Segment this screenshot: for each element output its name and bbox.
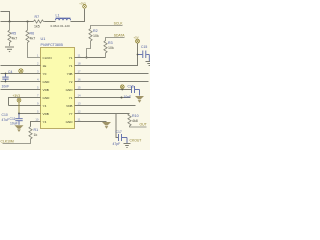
svg-text:GND: GND [66, 88, 74, 92]
node junction (18.5,113) [18, 113, 20, 115]
svg-text:Y0B: Y0B [67, 72, 73, 76]
wire IC pin8 right [75, 113, 130, 115]
svg-text:C4: C4 [8, 70, 12, 74]
svg-text:18: 18 [78, 61, 82, 65]
svg-text:14: 14 [78, 93, 82, 97]
svg-text:47uF: 47uF [2, 118, 10, 122]
ground arrow below C16 [135, 96, 144, 103]
resistor R7 [34, 20, 45, 23]
inductor L1 [55, 18, 70, 20]
wire IC pin4 left [1, 81, 41, 83]
svg-text:1E: 1E [43, 64, 47, 68]
svg-text:17: 17 [78, 69, 82, 73]
svg-text:16: 16 [78, 77, 82, 81]
node junction (121,89) [121, 89, 123, 91]
svg-text:VDB: VDB [43, 88, 49, 92]
node junction (5,73) [5, 73, 7, 75]
svg-text:PI49FCT3805: PI49FCT3805 [41, 43, 63, 47]
node junction (5,81) [5, 81, 7, 83]
ground below R5 [5, 47, 14, 52]
svg-text:C15: C15 [141, 45, 147, 49]
svg-text:13: 13 [78, 101, 82, 105]
svg-text:R2: R2 [93, 29, 98, 33]
wire IC pin3 left [1, 73, 41, 75]
svg-text:15: 15 [78, 85, 82, 89]
wire rail between R7 and L1 [45, 21, 56, 23]
ground arrow pin9 right [102, 122, 111, 129]
svg-text:47pF: 47pF [113, 142, 121, 146]
wire IC pin6 right [75, 97, 131, 99]
svg-text:10: 10 [35, 117, 39, 121]
svg-text:0.08-0.01-120: 0.08-0.01-120 [51, 24, 71, 28]
svg-text:1k5: 1k5 [34, 25, 40, 29]
capacitor C17 chain [116, 114, 118, 138]
svg-text:10uF: 10uF [10, 122, 18, 126]
svg-text:CKOUT: CKOUT [130, 139, 142, 143]
wire IC pin5 right to C16 [75, 89, 132, 91]
svg-text:11: 11 [78, 117, 81, 121]
wire IC pin2 right to +5V rail [75, 43, 138, 65]
svg-text:R1: R1 [34, 128, 39, 132]
svg-text:10nF: 10nF [124, 95, 132, 99]
svg-text:11: 11 [78, 53, 81, 57]
wire IC pin9 right to ground [75, 121, 107, 123]
power flag on pin3 wire [19, 69, 23, 73]
resistor R2 pull-up [87, 26, 123, 58]
svg-text:R6: R6 [30, 31, 35, 35]
svg-text:1k: 1k [34, 133, 38, 137]
svg-text:+5V: +5V [134, 35, 139, 39]
wire IC pin7 right [75, 105, 136, 107]
svg-text:L1: L1 [56, 14, 60, 18]
svg-text:Y1: Y1 [69, 56, 73, 60]
svg-text:GND: GND [66, 120, 74, 124]
svg-text:Y4: Y4 [43, 120, 47, 124]
node junction (27,21) [27, 21, 29, 23]
resistor R5 [8, 22, 11, 47]
svg-text:10nF: 10nF [2, 84, 10, 88]
svg-text:U1: U1 [41, 37, 46, 41]
svg-text:Y2: Y2 [69, 80, 73, 84]
svg-text:R5: R5 [12, 31, 17, 35]
wire IC pin4 right [75, 81, 149, 83]
wire rail L1 to +3V3 [71, 9, 85, 22]
svg-text:SCLK: SCLK [114, 22, 124, 26]
svg-text:12: 12 [78, 109, 82, 113]
IC right pin numbers [78, 53, 82, 121]
svg-text:Y1: Y1 [69, 64, 73, 68]
svg-text:4k7: 4k7 [12, 36, 18, 40]
svg-text:VDB: VDB [66, 104, 72, 108]
svg-text:Y7: Y7 [69, 112, 73, 116]
svg-text:R3: R3 [108, 41, 113, 45]
node junction (121,97) [121, 97, 123, 99]
svg-text:Y4: Y4 [43, 104, 47, 108]
svg-text:GND: GND [43, 80, 51, 84]
svg-text:GND: GND [43, 96, 51, 100]
node junction (137,54) [137, 54, 139, 56]
svg-text:10k: 10k [93, 34, 99, 38]
svg-text:CLKIN: CLKIN [43, 56, 52, 60]
IC left pin numbers [35, 53, 39, 121]
resistor R3 pull-up [104, 38, 125, 58]
resistor R6 [26, 22, 41, 58]
svg-text:R7: R7 [35, 15, 40, 19]
wire IC pin8 left [19, 113, 41, 115]
node junction (86,57) [86, 57, 88, 59]
svg-text:C17: C17 [116, 130, 122, 134]
ground below C17 [124, 144, 131, 148]
svg-text:C10: C10 [2, 113, 8, 117]
IC right pin names [66, 56, 74, 124]
wire IC pin6 left corner down [9, 98, 41, 106]
svg-text:10k: 10k [108, 46, 114, 50]
svg-text:OUT: OUT [140, 122, 147, 126]
wire IC pin9 left to R1 [31, 122, 41, 127]
IC left pin names [43, 56, 52, 124]
svg-text:Y1: Y1 [69, 96, 73, 100]
wire top-left entry [1, 12, 10, 22]
svg-text:C16: C16 [128, 85, 134, 89]
wire IC pin3 right [75, 73, 149, 75]
resistor R10 [128, 114, 147, 128]
power flag on pin5 wire [120, 85, 124, 89]
svg-text:CLK10M: CLK10M [1, 140, 14, 144]
svg-text:R10: R10 [132, 114, 139, 118]
svg-text:SDATA: SDATA [114, 34, 126, 38]
wire IC pin7 left [9, 105, 41, 107]
svg-text:VDB: VDB [43, 112, 49, 116]
svg-text:4k8: 4k8 [132, 119, 138, 123]
svg-text:4k7: 4k7 [30, 36, 36, 40]
capacitor C11 [15, 114, 22, 125]
svg-text:+3V3: +3V3 [13, 94, 21, 98]
wire IC pin5 left [1, 89, 41, 91]
wire main rail y=21 [1, 21, 34, 23]
wire IC pin1 right to R3 bottom [75, 57, 106, 59]
node junction (9,21) [9, 21, 11, 23]
ground arrow below C11 [15, 125, 24, 132]
svg-text:Y0: Y0 [43, 72, 47, 76]
resistor R1 [3, 127, 33, 144]
wire IC pin2 left [1, 65, 41, 67]
svg-text:C11: C11 [10, 117, 16, 121]
op IC U1 box [41, 48, 75, 129]
ground below C15 [146, 62, 151, 66]
